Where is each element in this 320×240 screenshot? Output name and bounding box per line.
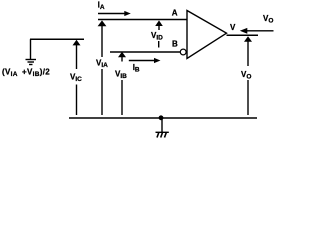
wire B (to inverting input) [110, 51, 181, 53]
svg-text:IA: IA [98, 0, 105, 11]
svg-text:VO: VO [241, 70, 251, 81]
ground G1 (signal ground, top-left 3-bar) [26, 39, 37, 64]
differential voltage arrow VID (dashed) [155, 20, 163, 47]
svg-text:V: V [230, 23, 236, 32]
svg-text:VIC: VIC [70, 73, 82, 84]
op-amp U1 inverting input bubble [180, 49, 186, 55]
svg-text:VID: VID [151, 31, 163, 42]
wire A (to noninverting input) [98, 19, 187, 21]
voltage arrow VO (output to ground) [244, 36, 252, 115]
ground G2 (earth ground, bottom) [156, 118, 169, 138]
input arrow VO (applied at output, points left) [240, 28, 274, 34]
bottom rail wire [69, 117, 257, 119]
svg-text:B: B [172, 39, 178, 48]
svg-text:VO: VO [263, 14, 273, 25]
voltage source arrow VIA [98, 20, 107, 115]
output wire from op-amp [227, 34, 259, 36]
svg-text:(VIA +VIB)/2: (VIA +VIB)/2 [2, 68, 50, 79]
current arrow IA [98, 11, 131, 16]
junction dot [159, 115, 164, 120]
svg-text:VIA: VIA [96, 58, 108, 69]
svg-text:IB: IB [133, 63, 140, 74]
svg-text:VIB: VIB [115, 69, 127, 80]
current arrow IB [129, 58, 161, 63]
svg-text:A: A [172, 8, 178, 17]
voltage source arrow VIB [118, 52, 126, 115]
op-amp U1 triangle [187, 11, 227, 59]
voltage source arrow VIC (common-mode) [73, 40, 81, 115]
wire from ground G1 to node VIC [30, 38, 84, 40]
